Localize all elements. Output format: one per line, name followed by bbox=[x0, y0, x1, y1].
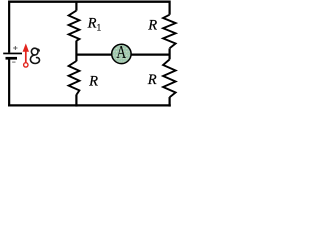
svg-text:A: A bbox=[116, 43, 126, 62]
wire: right border bottom lead bbox=[169, 97, 171, 107]
svg-text:R: R bbox=[147, 18, 157, 34]
battery minus sign bbox=[12, 61, 15, 63]
wire: left border bottom segment (from battery) bbox=[8, 59, 10, 105]
wire: middle branch top lead bbox=[75, 1, 77, 11]
resistor R (top right) zigzag bbox=[163, 15, 176, 49]
svg-text:R1: R1 bbox=[87, 16, 102, 34]
wire: bottom border bbox=[8, 104, 171, 106]
wire: middle branch center segment bbox=[75, 41, 77, 62]
wire: ammeter right lead bbox=[131, 53, 169, 55]
svg-text:R: R bbox=[147, 72, 157, 88]
battery negative plate (short thick) bbox=[6, 57, 18, 60]
ammeter A bbox=[112, 43, 131, 63]
battery plus sign bbox=[13, 46, 17, 50]
wire: right border top lead bbox=[169, 1, 171, 15]
wire: middle branch bottom lead bbox=[75, 95, 77, 107]
wire: ammeter left lead bbox=[76, 53, 111, 55]
emf direction arrow (red) bbox=[23, 43, 29, 67]
svg-text:R: R bbox=[88, 73, 98, 89]
resistor R (bottom right) zigzag bbox=[163, 59, 176, 97]
resistor R1 zigzag bbox=[69, 11, 80, 41]
emf script-E symbol bbox=[30, 48, 39, 63]
wire: top border bbox=[9, 1, 169, 3]
wire: right border middle segment bbox=[169, 48, 171, 59]
resistor R (bottom middle) zigzag bbox=[69, 61, 80, 95]
wire: left border top segment (to battery) bbox=[8, 1, 10, 53]
battery positive plate (long) bbox=[3, 53, 22, 55]
